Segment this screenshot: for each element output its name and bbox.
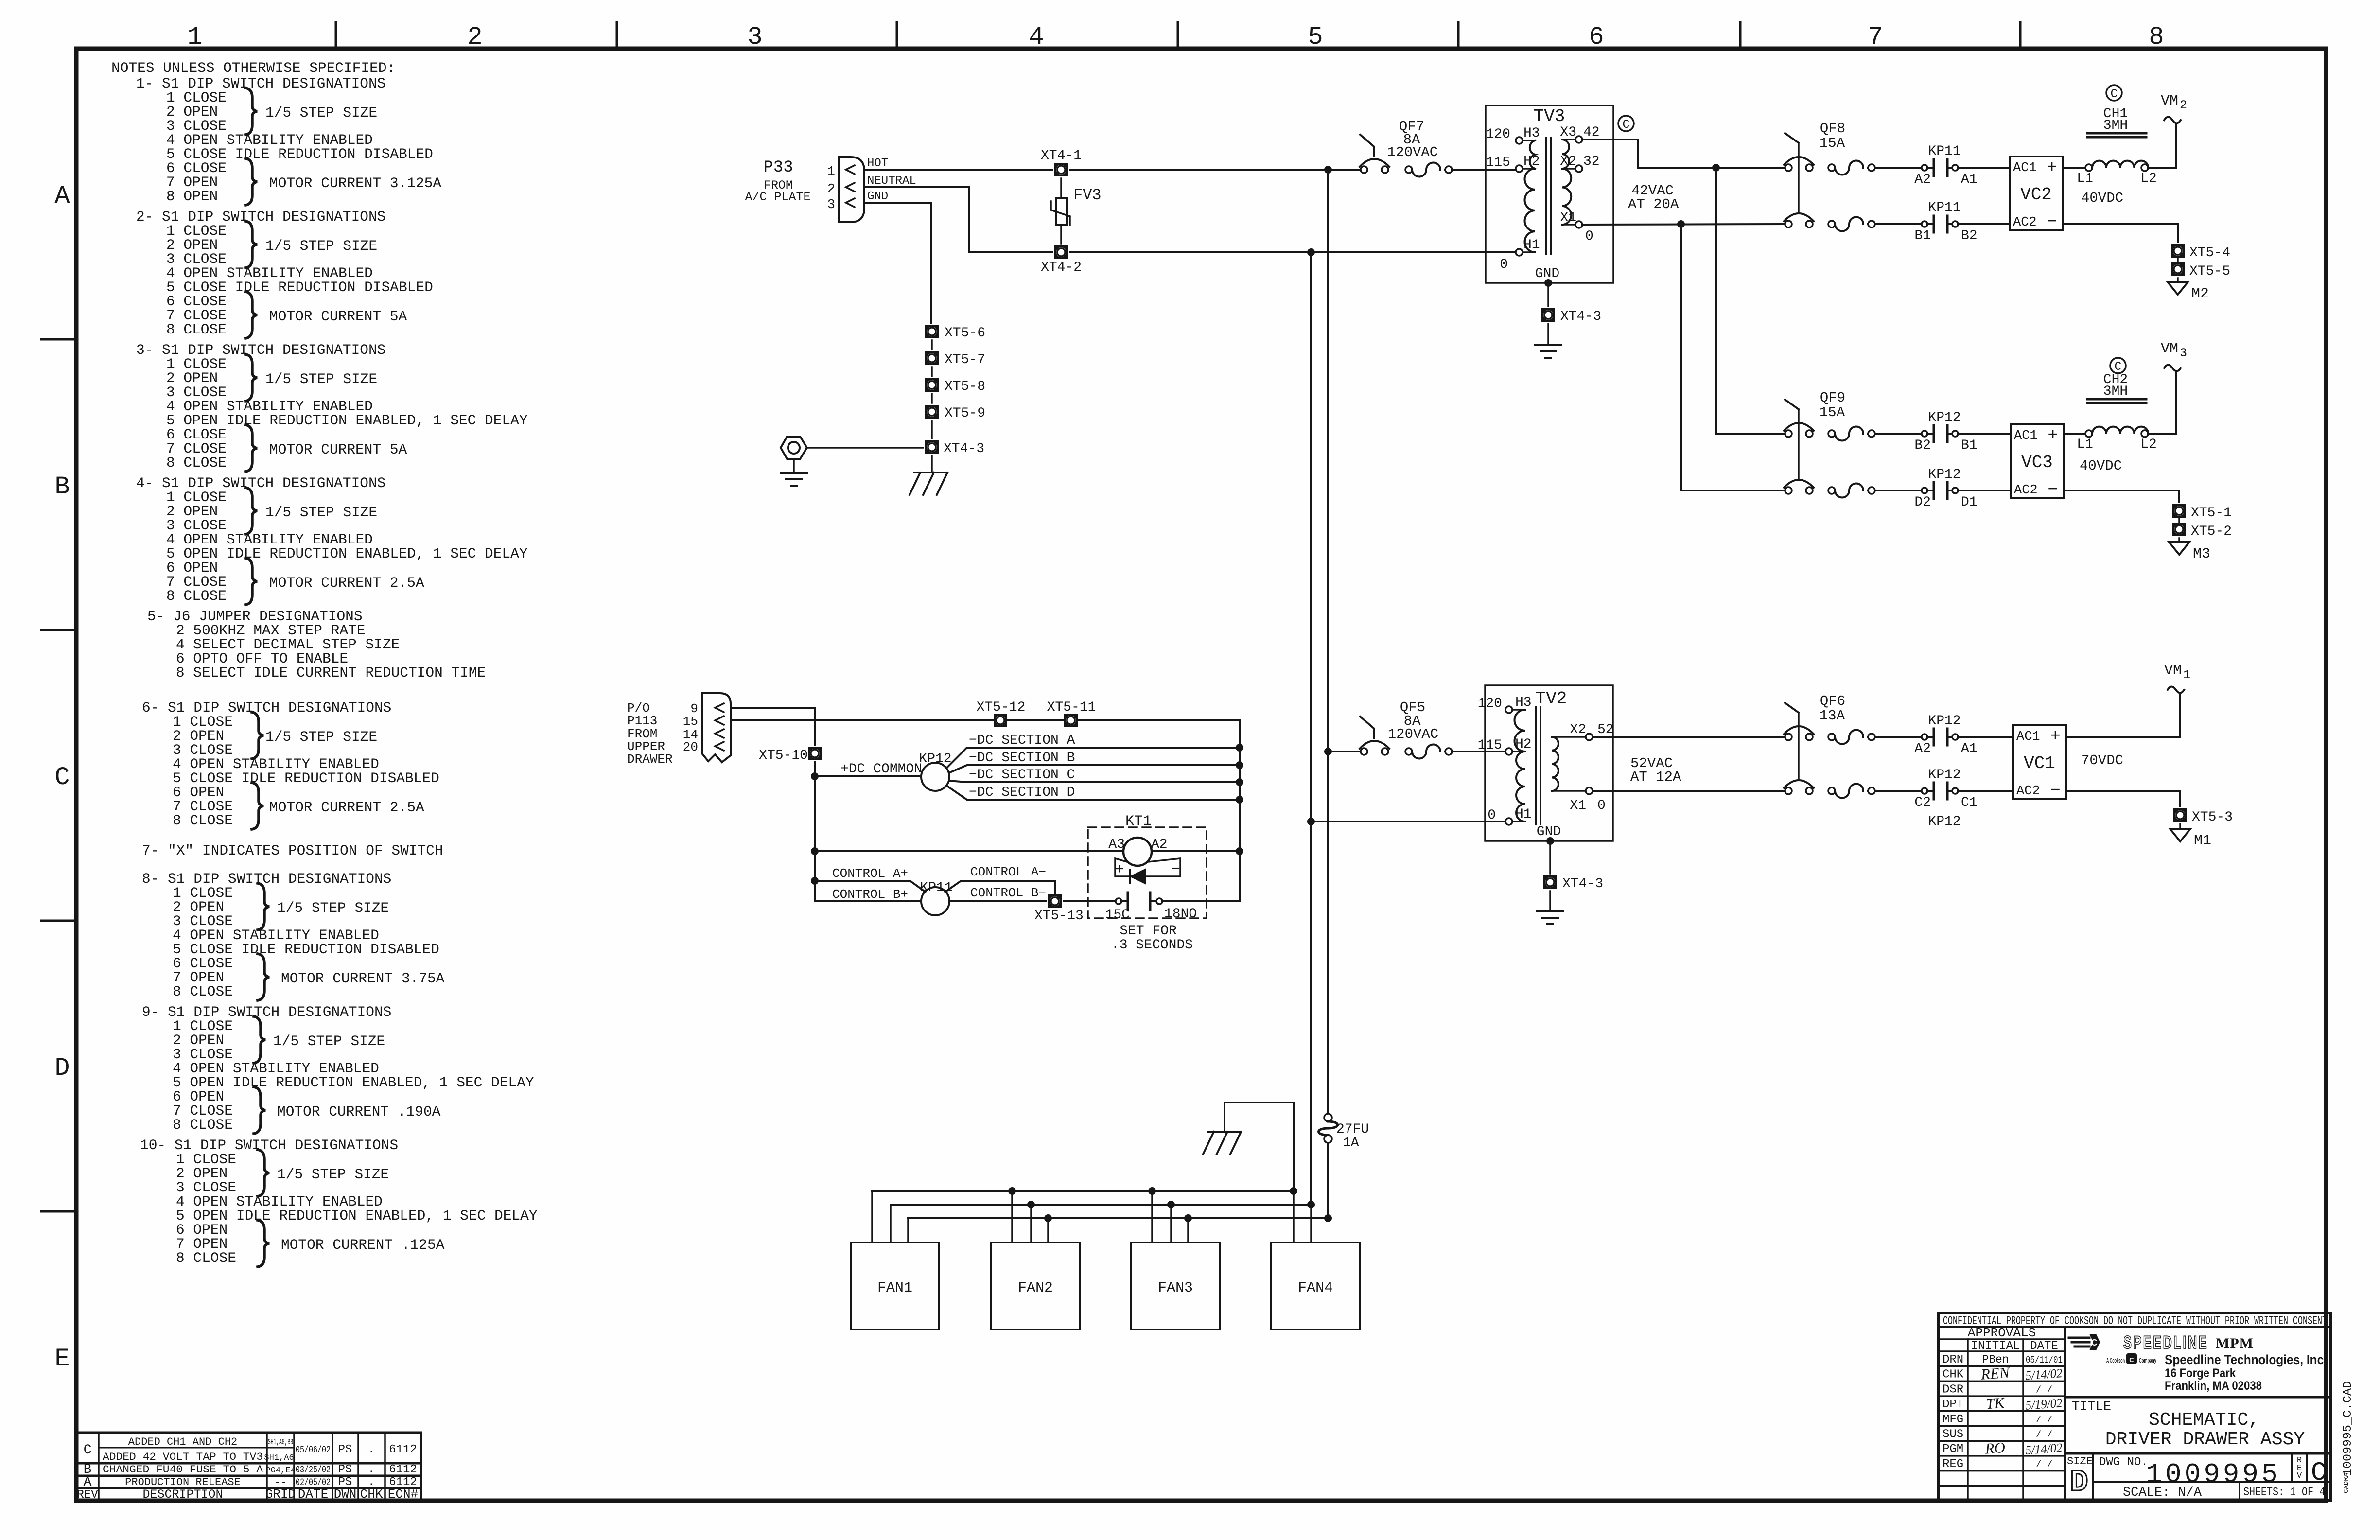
svg-text:REG: REG [1942,1458,1963,1471]
svg-text:PS: PS [338,1443,352,1456]
svg-text:KP11: KP11 [1928,144,1960,159]
svg-text:B1: B1 [1914,228,1931,244]
wire NEUTRAL: P33-2 to XT4-2 to TV3 H1 [864,187,1052,252]
wire KP12 D to VC3 AC2 [1958,490,2011,491]
node junction [811,877,819,885]
terminal XT5-7 [925,351,939,365]
svg-text:−: − [2047,212,2057,232]
svg-text:DRIVER DRAWER ASSY: DRIVER DRAWER ASSY [2105,1429,2305,1450]
terminal XT5-12 [994,714,1007,727]
TV2 tap H3 120 [1505,706,1512,713]
title block [1939,1313,2331,1501]
wire [2179,824,2181,829]
svg-text:1: 1 [827,165,835,179]
wire VC1 + to VM1 [2066,694,2180,737]
svg-text:C: C [1622,118,1629,132]
wire vertical control feed [814,762,816,901]
TV3 tap H2 115 [1516,165,1522,172]
svg-text:VC1: VC1 [2024,753,2055,773]
svg-text:8 CLOSE: 8 CLOSE [166,455,227,471]
svg-text:XT4-2: XT4-2 [1041,260,1082,275]
svg-text:6112: 6112 [389,1443,417,1456]
svg-text:M2: M2 [2191,286,2209,302]
svg-text:1/5 STEP SIZE: 1/5 STEP SIZE [265,729,377,745]
TV2 tap X1 0 [1586,787,1592,794]
svg-text:120: 120 [1478,696,1502,711]
svg-text:SUS: SUS [1942,1428,1963,1441]
svg-text:8: 8 [2149,23,2164,52]
svg-text:CONTROL B+: CONTROL B+ [832,887,908,902]
svg-text:15A: 15A [1820,404,1845,420]
fan FAN3 [1131,1242,1220,1330]
svg-text:NOTES UNLESS OTHERWISE SPECIFI: NOTES UNLESS OTHERWISE SPECIFIED: [111,60,395,76]
wire FAN1 stubs [871,1191,873,1242]
svg-text:05/11/01: 05/11/01 [2026,1355,2063,1365]
svg-text:FAN1: FAN1 [877,1280,912,1296]
svg-text:KP12: KP12 [1928,467,1960,482]
svg-text:XT4-3: XT4-3 [944,441,984,456]
svg-text:MOTOR CURRENT .190A: MOTOR CURRENT .190A [277,1103,441,1120]
svg-text:FAN2: FAN2 [1018,1280,1053,1296]
wire KT1 coil A3 row [815,850,1123,852]
svg-text:.3 SECONDS: .3 SECONDS [1111,938,1193,953]
svg-text:05/06/02: 05/06/02 [296,1445,331,1456]
node junction CONTROL A+ [811,847,819,855]
svg-text:32: 32 [1583,154,1600,169]
svg-text:KP12: KP12 [1928,410,1960,425]
node M2 (motor terminal) [2168,282,2188,295]
svg-text:KP12: KP12 [1928,768,1960,783]
TV3 core [1545,138,1547,254]
svg-text:SH1,A6: SH1,A6 [264,1453,294,1463]
svg-text:5 OPEN IDLE REDUCTION ENABLED,: 5 OPEN IDLE REDUCTION ENABLED, 1 SEC DEL… [176,1207,538,1224]
title area [2065,1396,2331,1399]
svg-text:SCHEMATIC,: SCHEMATIC, [2149,1410,2259,1431]
svg-text:8 CLOSE: 8 CLOSE [176,1250,236,1266]
svg-text:PGM: PGM [1942,1443,1963,1456]
diode (KT1 internal) [1130,869,1146,884]
svg-text:KP12: KP12 [919,752,951,767]
choke CH2 3MH [2085,430,2092,437]
KT1 polarity bracket and diode [1115,858,1180,876]
svg-text:MOTOR CURRENT 5A: MOTOR CURRENT 5A [269,441,407,458]
svg-text:A2: A2 [1914,172,1931,187]
svg-text:KP12: KP12 [1928,814,1960,829]
svg-text:VC3: VC3 [2021,453,2053,472]
svg-text:C: C [2129,1356,2134,1364]
svg-text:13A: 13A [1820,708,1845,724]
svg-text:B1: B1 [1961,438,1977,453]
svg-text:A2: A2 [1151,837,1168,852]
svg-text:P113: P113 [627,714,657,728]
svg-text:APPROVALS: APPROVALS [1968,1326,2036,1340]
svg-text:1/5 STEP SIZE: 1/5 STEP SIZE [277,1166,389,1183]
wire 42V feed to QF9 A [1716,168,1785,434]
relay coil KP12 [921,763,949,791]
wire [2177,258,2179,262]
svg-text:15: 15 [683,714,698,729]
svg-text:0: 0 [1487,808,1496,823]
svg-text:1: 1 [187,23,202,52]
svg-text:1: 1 [2183,668,2190,682]
svg-text:TITLE: TITLE [2072,1400,2111,1415]
wire -DC SECTION A [946,748,1240,768]
svg-text:XT4-3: XT4-3 [1560,309,1601,324]
wire KP11 B to VC2 AC2 [1958,223,2010,225]
svg-text:DPT: DPT [1942,1398,1963,1411]
svg-text:8 CLOSE: 8 CLOSE [166,321,227,338]
svg-text:VC2: VC2 [2020,185,2052,205]
svg-text:/ /: / / [2036,1430,2052,1440]
svg-text:AT 20A: AT 20A [1628,196,1679,212]
svg-text:5/14/02: 5/14/02 [2025,1366,2063,1382]
rectifier VC3 [2011,424,2064,498]
svg-text:0: 0 [1585,229,1593,244]
svg-text:1/5 STEP SIZE: 1/5 STEP SIZE [273,1033,385,1050]
svg-text:0: 0 [1597,798,1606,813]
svg-text:.: . [368,1443,375,1456]
wire FAN3 stubs [1151,1191,1153,1242]
svg-text:H2: H2 [1515,737,1532,752]
wire QF9 A to KP12 B contact [1875,433,1922,435]
svg-text:8 CLOSE: 8 CLOSE [173,1117,233,1133]
wire CONTROL B+ to KP11 coil [815,900,921,902]
svg-text:MOTOR CURRENT 3.125A: MOTOR CURRENT 3.125A [269,175,441,192]
node junction TV2 H1 feed [1307,818,1315,825]
svg-text:C: C [54,763,70,792]
TV3 tap X1 0 [1575,221,1582,228]
svg-text:XT5-4: XT5-4 [2189,245,2230,261]
wire TV3 GND to XT4-3 [1547,283,1549,306]
wire KP12 C to VC1 AC2 [1958,790,2013,792]
wire -DC SECTION D [946,786,1240,800]
rectifier VC2 [2010,157,2063,230]
svg-text:X1: X1 [1560,210,1576,226]
contact KP12 (C) [1922,788,1927,794]
svg-text:CHK: CHK [360,1487,383,1502]
wire QF8 A to KP11 A [1875,167,1922,169]
terminal XT4-1 [1054,163,1068,176]
svg-text:MOTOR CURRENT 3.75A: MOTOR CURRENT 3.75A [281,970,445,987]
svg-text:+: + [2047,157,2057,177]
wire [2178,538,2180,542]
svg-text:7- "X" INDICATES POSITION OF: 7- "X" INDICATES POSITION OF SWITCH [142,842,443,859]
svg-text:FV3: FV3 [1073,186,1102,204]
svg-text:KP11: KP11 [1928,200,1960,215]
svg-text:GRID: GRID [265,1487,296,1502]
TV3 tap H3 120 [1516,137,1522,144]
svg-text:120VAC: 120VAC [1388,726,1438,742]
breaker QF8 [1785,164,1792,171]
svg-text:A: A [84,1475,92,1490]
svg-text:2: 2 [2180,98,2187,112]
wire hot feed down to QF5 and 27FU [1327,170,1329,1118]
TV3 tap X2 32 [1575,165,1582,172]
svg-text:15A: 15A [1820,135,1845,151]
wire CONTROL B- from coil to XT5-13 [950,900,1046,902]
svg-text:3: 3 [747,23,762,52]
wire FAN2 stubs [1011,1191,1013,1242]
wire to QF5 [1328,751,1361,752]
wire VC3 - to XT5-1 [2064,490,2179,502]
svg-text:5: 5 [1308,23,1323,52]
svg-text:GND: GND [1537,824,1561,840]
wire HOT: P33-1 to XT4-1 to QF7 [864,169,1052,171]
wire KT1 A2 to return bus [1152,850,1240,852]
terminal XT5-11 [1064,714,1078,727]
svg-text:D2: D2 [1914,495,1931,510]
svg-text:REV: REV [77,1488,98,1502]
svg-text:XT5-5: XT5-5 [2189,264,2230,279]
svg-text:MOTOR CURRENT 2.5A: MOTOR CURRENT 2.5A [269,799,424,816]
svg-text:7: 7 [1868,23,1883,52]
svg-text:XT5-6: XT5-6 [945,326,985,341]
wire CONTROL A+ to KP11 coil [815,881,926,892]
svg-text:H2: H2 [1523,154,1540,169]
svg-text:52: 52 [1597,722,1614,737]
wire 27FU to fan hot bus [1327,1143,1329,1218]
svg-text:6112: 6112 [389,1463,417,1476]
svg-text:C: C [2311,1458,2327,1488]
svg-text:A Cookson: A Cookson [2106,1357,2125,1364]
wire to TV2 H1 [1311,821,1505,822]
ground (chassis) below XT4-3 [931,456,933,472]
terminal XT5-13 [1048,894,1062,908]
wire [931,394,933,403]
svg-text:42: 42 [1583,125,1600,140]
svg-text:RO: RO [1984,1439,2006,1457]
svg-text:HOT: HOT [867,157,888,170]
zone column ticks (top ruler) [335,22,337,49]
svg-text:E: E [54,1345,70,1373]
svg-text:M3: M3 [2193,546,2210,562]
svg-text:8 OPEN: 8 OPEN [166,188,218,205]
revision mark C [1618,116,1634,131]
svg-text:H1: H1 [1523,238,1540,253]
timer coil KT1 [1123,838,1152,866]
svg-text:27FU: 27FU [1336,1122,1369,1137]
ground (earth) below hex stud [793,459,795,472]
node junctions DC sections [1236,744,1243,752]
svg-text:−: − [2047,480,2058,500]
svg-text:H3: H3 [1523,126,1540,141]
svg-text:DWG NO.: DWG NO. [2099,1456,2148,1469]
fan FAN4 [1271,1242,1360,1330]
wire control return bus (right vertical) [1239,720,1241,901]
svg-text:AC2: AC2 [2016,784,2040,799]
svg-text:−DC SECTION A: −DC SECTION A [969,733,1075,748]
svg-text:6: 6 [1589,23,1604,52]
svg-text:XT5-12: XT5-12 [977,700,1026,715]
svg-text:70VDC: 70VDC [2081,752,2123,769]
timer KT1 dashed box [1088,827,1207,918]
wire VC1 - to XT5-3 [2066,791,2180,806]
connector P33 [839,157,864,222]
svg-text:TV3: TV3 [1534,106,1565,126]
svg-text:A1: A1 [1961,741,1977,756]
svg-text:1/5 STEP SIZE: 1/5 STEP SIZE [277,900,389,916]
svg-text:16 Forge Park: 16 Forge Park [2165,1366,2236,1380]
terminal XT5-8 [925,378,939,392]
wire QF7 to TV3 H2 [1452,169,1516,171]
svg-text:P33: P33 [763,158,793,177]
wire TV3 X1 to QF8 pole B (0V rail) [1582,224,1785,225]
wire TV3 X3 to QF8 pole A (42V rail) [1582,140,1785,168]
svg-text:−DC SECTION D: −DC SECTION D [969,785,1075,800]
contact KP12 (B) [1922,431,1927,437]
svg-text:A1: A1 [1961,172,1977,187]
terminal XT5-9 [925,405,939,419]
svg-text:5 OPEN IDLE REDUCTION ENABLED,: 5 OPEN IDLE REDUCTION ENABLED, 1 SEC DEL… [173,1074,534,1091]
wire TV2 X1 to QF6 B [1592,790,1785,792]
svg-text:1/5 STEP SIZE: 1/5 STEP SIZE [265,371,377,387]
fuse 27FU [1324,1114,1332,1121]
wire 0V feed to QF9 B [1681,224,1785,490]
wire 18NO to return bus [1162,900,1240,902]
svg-text:5 OPEN IDLE REDUCTION ENABLED,: 5 OPEN IDLE REDUCTION ENABLED, 1 SEC DEL… [166,545,528,562]
breaker QF9 [1785,430,1792,437]
svg-text:8 CLOSE: 8 CLOSE [173,812,233,829]
drawing number area [2065,1452,2331,1455]
svg-text:DRN: DRN [1942,1353,1963,1366]
svg-text:AC2: AC2 [2013,215,2037,230]
terminal XT5-10 [808,747,822,760]
svg-text:PS: PS [338,1463,352,1476]
node M1 (motor terminal) [2170,829,2190,841]
svg-text:SHEETS: 1 OF 4: SHEETS: 1 OF 4 [2243,1486,2325,1499]
svg-text:VM: VM [2161,93,2178,109]
wire P113-9 to XT5-10 to +DC COMMON [731,708,815,745]
svg-text:+: + [1115,862,1124,878]
svg-text:1A: 1A [1343,1136,1359,1151]
svg-text:DRAWER: DRAWER [627,752,673,767]
ground (earth) TV2 [1549,891,1551,911]
svg-text:REN: REN [1980,1364,2011,1383]
breaker QF5 [1361,748,1367,755]
svg-text:B2: B2 [1914,438,1931,453]
svg-text:1/5 STEP SIZE: 1/5 STEP SIZE [265,105,377,121]
svg-text:X1: X1 [1570,798,1586,813]
svg-text:DSR: DSR [1942,1383,1963,1396]
svg-text:B: B [54,472,70,501]
svg-text:PG4,E4: PG4,E4 [265,1466,295,1475]
zone row ticks (left ruler) [41,338,76,341]
svg-text:KP11: KP11 [920,880,952,895]
svg-text:CONTROL B−: CONTROL B− [970,886,1046,900]
svg-text:C: C [84,1443,92,1458]
svg-text:QF9: QF9 [1820,390,1845,406]
svg-text:−: − [1172,861,1180,878]
terminal XT5-3 [2173,808,2187,822]
TV3 primary winding [1522,140,1535,141]
svg-text:PRODUCTION RELEASE: PRODUCTION RELEASE [125,1476,241,1488]
terminal XT4-3 (TV2 ground) [1543,875,1557,889]
svg-text:DATE: DATE [298,1487,328,1502]
revision history table [77,1433,421,1501]
node junction hot rail to 27FU feed [1324,166,1332,174]
node junction QF5 feed [1324,748,1332,755]
fan bus (hot) [908,1217,1328,1219]
svg-text:1009995_C.CAD: 1009995_C.CAD [2341,1381,2355,1476]
wire QF9 B to KP12 D contact [1875,490,1922,491]
terminal XT4-3 (TV3 ground) [1541,308,1555,322]
wire [931,340,933,350]
svg-text:Company: Company [2139,1357,2156,1364]
svg-text:CONTROL A−: CONTROL A− [970,865,1046,879]
svg-text:TV2: TV2 [1536,689,1567,709]
svg-text:2: 2 [467,23,482,52]
wire QF6 A to KP12 A [1875,736,1922,738]
svg-text:KP12: KP12 [1928,714,1960,729]
svg-text:A2: A2 [1914,741,1931,756]
svg-text:DESCRIPTION: DESCRIPTION [142,1487,223,1502]
transformer TV2 [1485,685,1613,841]
terminal XT5-6 [925,325,939,338]
svg-text:CONTROL A+: CONTROL A+ [832,866,908,881]
svg-text:L2: L2 [2140,171,2157,186]
svg-text:B2: B2 [1961,228,1977,244]
fan bus (neutral) [891,1204,1311,1206]
svg-text:QF8: QF8 [1820,121,1845,137]
TV3 secondary winding [1562,140,1569,169]
breaker QF6 [1785,734,1792,740]
choke CH1 3MH [2085,164,2092,171]
svg-text:AC1: AC1 [2016,730,2040,744]
wire QF8 B to KP11 B [1875,223,1922,225]
svg-text:XT5-3: XT5-3 [2192,810,2233,825]
fan bus (ground) [872,1190,1294,1192]
svg-text:−: − [2050,781,2061,801]
svg-text:120: 120 [1486,127,1510,142]
fuse FV3 [1060,178,1062,198]
node junction 0V rail to QF9 feed [1677,220,1685,228]
svg-text:FAN4: FAN4 [1298,1280,1333,1296]
rectifier VC1 [2013,725,2066,799]
wire CH1 L2 to VM2 [2148,124,2176,168]
svg-text:Speedline Technologies, Inc.: Speedline Technologies, Inc. [2165,1352,2327,1367]
wire TV2 X2 to QF6 A [1592,736,1785,738]
node junction 42V rail to QF9 feed [1712,164,1720,172]
svg-text:ECN#: ECN# [388,1487,418,1502]
approvals table [2064,1327,2066,1501]
svg-text:SET FOR: SET FOR [1120,924,1177,939]
svg-text:3: 3 [827,198,835,212]
TV2 tap H1 0 [1505,818,1512,825]
svg-text:+: + [2050,726,2061,746]
node M3 (motor terminal) [2169,542,2189,555]
svg-text:L2: L2 [2140,437,2157,452]
svg-text:C2: C2 [1914,795,1931,810]
svg-text:5/19/02: 5/19/02 [2025,1396,2063,1413]
svg-text:MFG: MFG [1942,1413,1963,1426]
svg-text:5/14/02: 5/14/02 [2025,1441,2063,1457]
svg-text:SH1,A8,B8: SH1,A8,B8 [268,1438,293,1447]
terminal XT5-2 [2172,523,2186,536]
svg-text:NEUTRAL: NEUTRAL [867,175,916,188]
confidential banner [1939,1326,2331,1328]
svg-text:D: D [54,1054,70,1083]
svg-text:XT5-7: XT5-7 [945,352,985,367]
svg-text:8 SELECT IDLE CURRENT REDUCTIO: 8 SELECT IDLE CURRENT REDUCTION TIME [176,665,486,681]
svg-text:GND: GND [867,190,888,203]
contact KP12 (D) [1922,488,1927,493]
fan FAN2 [991,1242,1080,1330]
svg-text:ADDED 42 VOLT TAP TO TV3: ADDED 42 VOLT TAP TO TV3 [103,1451,263,1463]
wire KP12 A to VC1 AC1 [1958,736,2013,738]
contact KP12 (A) [1922,734,1927,740]
ground (chassis) for fan bus [1225,1102,1294,1191]
svg-text:1/5 STEP SIZE: 1/5 STEP SIZE [265,504,377,521]
